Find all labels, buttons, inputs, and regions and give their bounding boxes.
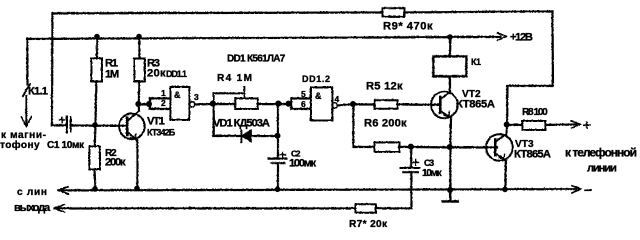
wire DD1.1 output (195, 102, 213, 105)
node DD1.2 input pair (290, 98, 292, 109)
svg-text:2: 2 (161, 98, 166, 108)
wire top bus (52, 11, 552, 13)
wire VT1 emitter (136, 140, 138, 189)
resistor R2 (89, 146, 100, 169)
svg-text:5: 5 (301, 89, 306, 99)
svg-text:100мк: 100мк (289, 158, 317, 170)
wire DD1.2 output (337, 104, 353, 105)
node VT3 emitter bottom (502, 187, 508, 193)
wire left vertical from top bus (50, 13, 53, 125)
resistor R7 (355, 204, 376, 213)
wire bottom bus 2 (54, 207, 411, 209)
switch K1.1 (26, 39, 28, 85)
svg-text:R8 100: R8 100 (522, 107, 548, 118)
wire VT2 collector to K1 (448, 76, 450, 92)
resistor R9 (382, 8, 404, 17)
ground (449, 190, 451, 201)
node VD1 C2 (275, 133, 281, 139)
wire DD1.1 input link (138, 103, 149, 105)
wire VT2 emitter (449, 118, 452, 191)
node C3 top (408, 144, 414, 150)
wire pin 1 (150, 97, 171, 99)
wire VT3 emitter (504, 160, 507, 190)
node R2 bottom (92, 186, 98, 192)
relay K1 (433, 56, 466, 76)
resistor R5 (374, 100, 397, 109)
svg-text:6: 6 (301, 99, 306, 109)
node plus terminal (584, 122, 590, 128)
wire C3 top lead (410, 147, 412, 168)
wire C2 bottom lead (276, 163, 278, 190)
wire R3 leads (137, 37, 140, 103)
wire R1 leads (95, 37, 97, 126)
svg-text:линии: линии (587, 163, 617, 175)
wire R6 branch (353, 104, 374, 147)
op-amp U1 gate DD1.1 (170, 87, 189, 120)
node DD1.2 output (350, 101, 356, 107)
svg-text:1М: 1М (105, 69, 119, 81)
wire VT1 collector (137, 104, 139, 111)
wire R4 leads (213, 102, 279, 104)
svg-text:&: & (315, 91, 322, 101)
svg-text:DD1 К561ЛА7: DD1 К561ЛА7 (227, 54, 286, 65)
wire K1 to +12V bus (448, 37, 451, 56)
svg-text:R9* 470к: R9* 470к (383, 21, 433, 33)
svg-text:КТ865А: КТ865А (514, 149, 551, 161)
wire pin 2 (150, 107, 171, 109)
node minus terminal (585, 189, 591, 191)
svg-text:DD1.1: DD1.1 (166, 69, 187, 79)
node C2 bottom (275, 187, 281, 193)
wire R8 leads (507, 123, 576, 126)
wire C1 to VT1 base (71, 124, 128, 127)
svg-text:10мк: 10мк (422, 168, 443, 179)
transistor VT1 (119, 111, 145, 140)
wire to VT2 emitter node (411, 145, 450, 148)
transistor VT3 (486, 134, 513, 161)
wire bottom bus 1 (58, 189, 576, 190)
wire right corner path (507, 11, 553, 125)
arrow bottom bus 1 right (572, 185, 581, 192)
svg-text:200к: 200к (105, 157, 126, 169)
svg-text:КТ865А: КТ865А (456, 99, 495, 111)
wire +12V bus (27, 37, 500, 39)
wire R2 leads (94, 125, 95, 189)
svg-text:к телефонной: к телефонной (565, 145, 637, 159)
wire to VT3 base (450, 146, 497, 148)
svg-text:3: 3 (194, 92, 199, 102)
capacitor C1 (59, 116, 71, 132)
node DD1.1 input pair (148, 98, 150, 109)
svg-text:выхода: выхода (14, 202, 51, 214)
svg-text:К1: К1 (471, 57, 481, 67)
node R1 top (94, 34, 100, 40)
svg-text:R4 1М: R4 1М (217, 73, 253, 84)
arrow +12V (497, 33, 506, 41)
svg-text:DD1.2: DD1.2 (302, 74, 331, 84)
diode VD1 (241, 130, 251, 143)
arrow bottom bus 2 left (54, 204, 64, 211)
capacitor C3 (400, 160, 419, 172)
svg-text:R7* 20к: R7* 20к (349, 219, 388, 229)
svg-text:R6 200к: R6 200к (364, 118, 407, 130)
svg-text:КТ342Б: КТ342Б (147, 128, 176, 138)
node VT2 emitter (447, 144, 453, 150)
wire DD1.2 input link (279, 102, 289, 104)
svg-text:+12В: +12В (510, 32, 533, 44)
node R4 right (275, 101, 281, 107)
wire to VT3 collector (505, 125, 508, 134)
wire pin 5 (291, 97, 311, 99)
transistor VT2 (431, 91, 458, 118)
node DD1.2 pins (285, 101, 291, 107)
svg-text:тофону: тофону (0, 139, 40, 151)
wire R4 wiper (213, 93, 244, 103)
resistor R8 (522, 121, 545, 130)
svg-text:4: 4 (335, 94, 340, 104)
svg-text:С1 10мк: С1 10мк (47, 140, 85, 151)
arrow R8 output (571, 121, 580, 128)
wire to C1 (52, 124, 67, 126)
node R3 top (136, 34, 142, 40)
resistor R4 (235, 98, 258, 109)
svg-text:20к: 20к (147, 68, 166, 80)
op-amp U2 gate DD1.2 (311, 87, 333, 120)
svg-text:VT1: VT1 (147, 116, 165, 128)
wire VD1 branch left (213, 104, 240, 136)
resistor R3 (134, 58, 145, 81)
node DD1.1 pins (146, 101, 152, 107)
node R4 left (210, 101, 216, 107)
node K1 top (447, 34, 453, 40)
svg-text:С3: С3 (424, 158, 434, 168)
wire pin 6 (291, 107, 311, 109)
wire R5 leads (353, 103, 440, 106)
wire C2 top lead (276, 136, 278, 158)
capacitor C2 (268, 152, 286, 163)
svg-text:VD1 КД503А: VD1 КД503А (213, 118, 270, 130)
resistor R6 (374, 142, 399, 152)
svg-text:с лин: с лин (17, 187, 48, 198)
svg-text:1: 1 (161, 88, 166, 98)
svg-text:К1.1: К1.1 (28, 86, 48, 98)
node VT1 base (92, 122, 98, 128)
svg-text:&: & (174, 90, 181, 100)
wire VD1 branch right (251, 104, 278, 136)
wire C3 bottom lead (410, 172, 412, 208)
node R8 (504, 122, 510, 128)
arrow bottom bus 1 left (58, 186, 68, 193)
wire R6 to C3 node (399, 145, 411, 147)
node VT1 emitter bottom (134, 186, 140, 192)
node ground junction (447, 187, 453, 193)
svg-text:R5 12к: R5 12к (366, 81, 403, 93)
node VT1 collector (135, 101, 141, 107)
resistor R1 (91, 58, 102, 81)
